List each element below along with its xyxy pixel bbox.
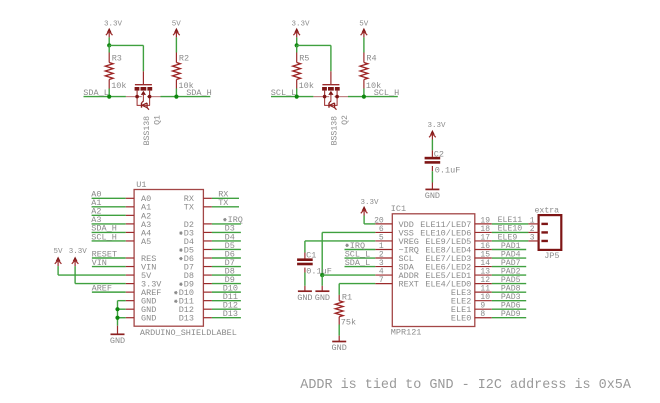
- svg-text:VIN: VIN: [92, 258, 107, 268]
- svg-text:0.1uF: 0.1uF: [435, 165, 461, 175]
- svg-text:SDA_L: SDA_L: [345, 258, 371, 268]
- svg-text:U1: U1: [136, 180, 146, 190]
- svg-text:R5: R5: [299, 53, 309, 63]
- svg-text:D13: D13: [179, 314, 194, 324]
- svg-text:10k: 10k: [111, 81, 126, 91]
- svg-text:Q1: Q1: [154, 115, 163, 125]
- svg-text:BSS138: BSS138: [143, 116, 152, 146]
- svg-text:IC1: IC1: [391, 204, 406, 214]
- svg-text:GND: GND: [110, 336, 125, 346]
- svg-text:GND: GND: [315, 293, 330, 303]
- svg-text:ELE0: ELE0: [451, 314, 471, 324]
- svg-text:MPR121: MPR121: [391, 327, 422, 337]
- svg-text:AREF: AREF: [92, 283, 112, 293]
- svg-text:R4: R4: [366, 53, 376, 63]
- svg-text:ARDUINO_SHIELDLABEL: ARDUINO_SHIELDLABEL: [140, 328, 237, 338]
- svg-text:PAD9: PAD9: [501, 310, 521, 319]
- svg-text:SDA_L: SDA_L: [83, 88, 109, 98]
- svg-text:D13: D13: [223, 309, 238, 319]
- svg-text:8: 8: [480, 310, 485, 319]
- svg-text:5V: 5V: [359, 20, 369, 28]
- svg-text:R2: R2: [179, 53, 189, 63]
- svg-text:extra: extra: [535, 207, 560, 216]
- svg-text:JP5: JP5: [544, 251, 559, 261]
- svg-text:3.3V: 3.3V: [69, 248, 88, 256]
- svg-text:3.3V: 3.3V: [104, 20, 123, 28]
- svg-text:3.3V: 3.3V: [428, 122, 447, 130]
- svg-text:GND: GND: [332, 343, 347, 353]
- svg-text:75k: 75k: [341, 317, 356, 327]
- svg-text:3.3V: 3.3V: [361, 199, 380, 207]
- svg-text:7: 7: [379, 276, 384, 285]
- svg-text:GND: GND: [425, 191, 440, 201]
- svg-text:SCL_L: SCL_L: [271, 88, 297, 98]
- svg-text:3.3V: 3.3V: [292, 20, 311, 28]
- svg-text:R1: R1: [342, 292, 352, 302]
- svg-text:C2: C2: [434, 150, 444, 160]
- svg-text:A5: A5: [141, 237, 151, 247]
- svg-text:5V: 5V: [172, 20, 182, 28]
- svg-text:GND: GND: [141, 314, 156, 324]
- svg-text:Q2: Q2: [341, 115, 350, 125]
- svg-text:GND: GND: [297, 293, 312, 303]
- svg-text:SDA_H: SDA_H: [186, 88, 212, 98]
- svg-text:SCL_H: SCL_H: [374, 88, 400, 98]
- svg-text:BSS138: BSS138: [330, 116, 339, 146]
- svg-text:SCL_H: SCL_H: [91, 232, 117, 242]
- svg-text:TX: TX: [218, 198, 228, 208]
- svg-text:R3: R3: [112, 53, 122, 63]
- svg-text:REXT: REXT: [399, 280, 419, 290]
- svg-text:5V: 5V: [54, 248, 64, 256]
- svg-text:3: 3: [530, 233, 535, 242]
- svg-text:10k: 10k: [299, 81, 314, 91]
- svg-text:ADDR is tied to GND - I2C addr: ADDR is tied to GND - I2C address is 0x5…: [300, 378, 632, 393]
- svg-text:C1: C1: [306, 251, 316, 261]
- svg-text:TX: TX: [184, 203, 194, 213]
